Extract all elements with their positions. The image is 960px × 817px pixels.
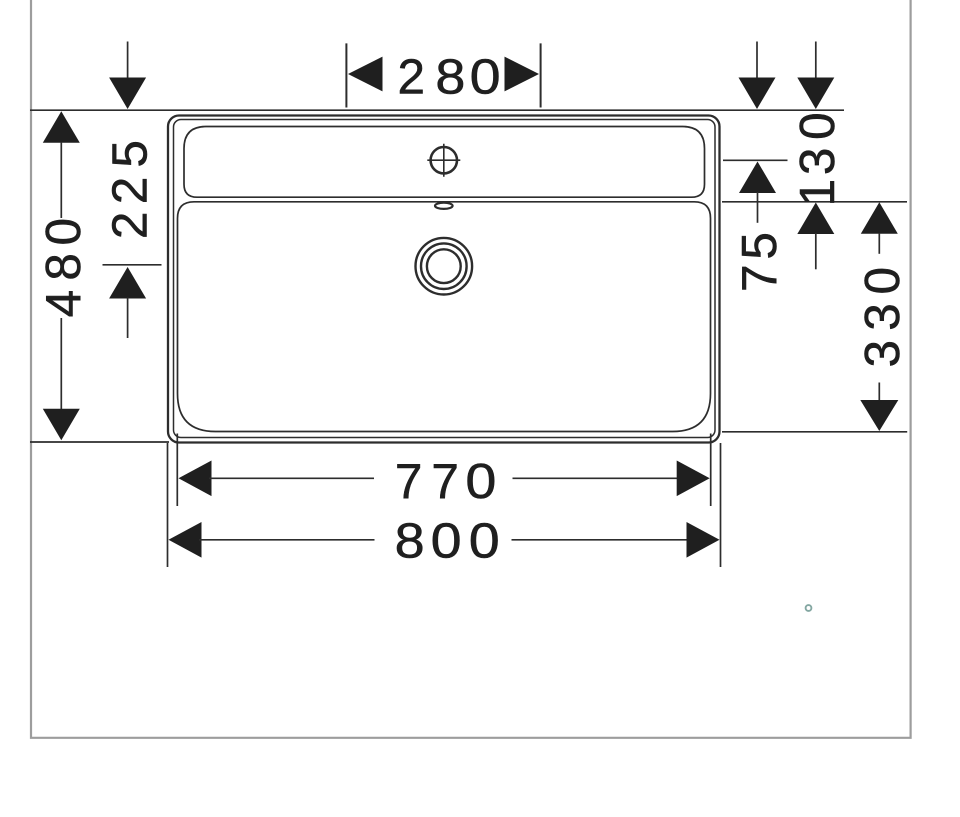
line 800 left segment <box>199 539 375 541</box>
arrowhead 280 left <box>348 57 383 92</box>
arrowhead 330 top (points up at deck line) <box>861 202 898 234</box>
tap deck inner outline <box>184 127 705 198</box>
dimension 330 <box>860 202 898 431</box>
extension line bottom-left (y=442) <box>30 441 169 443</box>
arrowhead 480 bottom <box>43 409 80 441</box>
svg-text:5: 5 <box>732 232 787 260</box>
extension vertical 770 left <box>176 434 178 507</box>
svg-text:0: 0 <box>36 218 91 246</box>
dimension 280 <box>348 57 539 92</box>
arrowhead 480 top <box>43 111 80 143</box>
extension tick 280 right <box>540 43 542 107</box>
svg-text:0: 0 <box>790 112 845 140</box>
arrowhead 280 right <box>505 57 540 92</box>
extension line bowl bottom right (y=431.8) <box>722 431 907 433</box>
svg-text:8: 8 <box>395 514 425 569</box>
extension vertical 800 right <box>720 443 722 567</box>
line 770 right segment <box>513 477 680 479</box>
label 225 (vertical) <box>103 140 158 239</box>
dimension 225 <box>109 42 146 339</box>
overflow slot <box>435 203 453 209</box>
extension tick 280 left <box>345 43 347 107</box>
dimension 480 <box>43 111 80 440</box>
tail 330 top <box>878 233 880 254</box>
label 75 (vertical) <box>732 232 787 292</box>
svg-text:2: 2 <box>103 177 158 205</box>
drain inner circle <box>427 249 461 283</box>
drain outer circle <box>416 238 473 295</box>
line 770 left segment <box>209 477 374 479</box>
extension line deck level right (y=201.8) <box>722 201 907 203</box>
arrowhead 225 top (points down at top line) <box>109 78 146 110</box>
arrowhead 800 left <box>169 522 202 558</box>
svg-text:3: 3 <box>855 303 910 331</box>
svg-text:3: 3 <box>855 340 910 368</box>
line 480 lower segment <box>60 318 62 409</box>
tail 130 top <box>815 42 817 81</box>
arrowhead 330 bottom (points down at bottom line) <box>860 400 898 431</box>
svg-text:1: 1 <box>790 179 845 207</box>
arrowhead 130 top (points down at top line) <box>797 78 834 110</box>
arrowhead 770 left <box>179 461 212 497</box>
line 330 lower segment <box>878 383 880 403</box>
extension line faucet level right (y=160) <box>723 159 788 161</box>
tail 225 bottom <box>127 298 129 339</box>
line 480 upper segment <box>60 142 62 218</box>
svg-text:8: 8 <box>36 253 91 281</box>
svg-text:4: 4 <box>36 290 91 318</box>
label 330 (vertical) <box>855 267 910 368</box>
dimension 130 <box>797 42 834 270</box>
svg-text:0: 0 <box>465 454 496 509</box>
arrowhead 75 top (points down at top line) <box>739 78 776 110</box>
tail 130 bottom <box>815 233 817 269</box>
label 130 (vertical) <box>790 112 845 206</box>
arrowhead 75 bottom (points up at faucet line) <box>739 162 776 194</box>
arrowhead 770 right <box>677 461 710 497</box>
label 280 <box>398 49 501 104</box>
svg-text:7: 7 <box>431 454 459 509</box>
svg-text:2: 2 <box>398 49 426 104</box>
dimension 75 <box>739 42 777 223</box>
tail 75 top <box>756 42 758 81</box>
svg-text:5: 5 <box>103 140 158 168</box>
svg-text:0: 0 <box>855 267 910 295</box>
arrowhead 800 right <box>687 522 720 558</box>
extension line drain level left (y=264.8) <box>103 264 162 266</box>
svg-text:2: 2 <box>103 212 158 240</box>
dimension 800 <box>169 522 720 558</box>
basin bowl outline <box>178 202 711 432</box>
washbasin second outline <box>174 120 716 438</box>
svg-text:0: 0 <box>431 514 462 569</box>
svg-text:8: 8 <box>435 49 465 104</box>
extension vertical 770 right <box>710 434 712 507</box>
svg-text:0: 0 <box>469 514 500 569</box>
label 480 (vertical) <box>36 218 91 317</box>
faucet hole centerlines <box>427 144 460 177</box>
svg-text:0: 0 <box>470 49 501 104</box>
svg-text:7: 7 <box>732 264 787 292</box>
drain middle circle <box>421 243 467 289</box>
svg-text:7: 7 <box>395 454 423 509</box>
washbasin outer outline <box>168 116 720 443</box>
svg-text:3: 3 <box>790 148 845 176</box>
label 800 <box>395 514 500 569</box>
dimension 770 <box>179 461 710 497</box>
line 800 right segment <box>512 539 691 541</box>
arrowhead 130 bottom (points up at deck line) <box>797 203 834 235</box>
arrowhead 225 bottom (points up at drain line) <box>109 267 146 299</box>
tail 75 bottom <box>757 192 759 223</box>
label 770 <box>395 454 497 509</box>
tail 225 top <box>127 42 129 81</box>
faucet hole <box>431 147 457 173</box>
small teal dot <box>806 605 812 611</box>
extension line top (y=110) <box>30 109 844 111</box>
extension vertical 800 left <box>167 443 169 567</box>
